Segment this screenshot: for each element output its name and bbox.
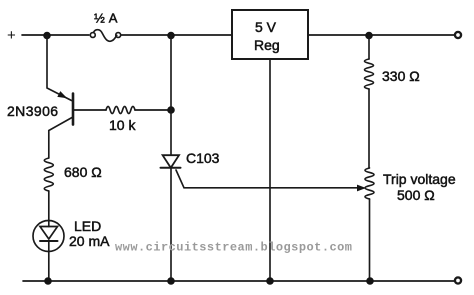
- value label 680 ohm for R2: [64, 164, 102, 180]
- fuse F1 (1/2 A): [90, 33, 95, 38]
- wire regulator to right terminal: [308, 34, 455, 36]
- wire potentiometer to bottom rail: [369, 199, 371, 281]
- svg-text:Reg: Reg: [254, 37, 280, 53]
- svg-text:C103: C103: [186, 150, 220, 166]
- label Trip voltage 500 ohm for R4: [383, 171, 456, 203]
- potentiometer R4 trip voltage 500 ohm: [365, 168, 374, 199]
- wire SCR anode column from top rail: [170, 36, 172, 111]
- svg-text:½ A: ½ A: [94, 10, 118, 25]
- svg-text:www.circuitsstream.blogspot.co: www.circuitsstream.blogspot.com: [115, 241, 352, 255]
- resistor R3 330 ohm: [365, 59, 374, 89]
- junction node A (top rail / emitter branch): [43, 32, 51, 40]
- svg-text:500 Ω: 500 Ω: [397, 187, 435, 203]
- wire bottom rail (negative/ground): [23, 280, 455, 282]
- SCR U2 C103 (thyristor): [163, 155, 179, 168]
- value label 330 ohm for R3: [382, 68, 420, 84]
- svg-text:+: +: [7, 27, 16, 44]
- wire top rail to resistor 330: [368, 36, 370, 60]
- wire top rail left: [22, 34, 89, 36]
- wire SCR cathode to bottom rail: [170, 168, 172, 281]
- svg-text:330 Ω: 330 Ω: [382, 68, 420, 84]
- terminal top right: [455, 32, 461, 38]
- value label 10 k for R1: [109, 117, 136, 133]
- junction node H (potentiometer / bottom rail): [366, 277, 374, 285]
- svg-text:20 mA: 20 mA: [69, 233, 110, 249]
- wire LED cathode to bottom rail: [48, 241, 50, 281]
- transistor Q1 2N3906 base bar: [72, 94, 75, 125]
- label C103 for SCR: [186, 150, 220, 166]
- wire base of Q1 to resistor 10k: [74, 109, 106, 111]
- resistor R2 680 ohm: [44, 158, 53, 191]
- svg-text:10 k: 10 k: [109, 117, 136, 133]
- wire collector of Q1 down to R2: [49, 118, 72, 159]
- wire emitter of Q1 to top rail: [47, 36, 72, 101]
- junction node G (regulator ground / bottom rail): [266, 277, 274, 285]
- regulator U1 5V Reg box: [232, 10, 308, 59]
- junction node D (base network / SCR anode): [167, 106, 175, 114]
- wire R1 to SCR anode column: [135, 109, 171, 111]
- wire fuse to regulator: [121, 34, 232, 36]
- value label 1/2 A for fuse F1: [94, 10, 118, 25]
- node + (positive input terminal label): [7, 27, 16, 44]
- wire SCR gate to potentiometer wiper: [176, 170, 359, 188]
- emitter arrow of Q1 (PNP): [57, 91, 67, 98]
- svg-text:Trip voltage: Trip voltage: [383, 171, 456, 187]
- junction node B (top rail / SCR anode branch): [167, 32, 175, 40]
- junction node E (LED cathode / bottom rail): [44, 277, 52, 285]
- svg-text:5 V: 5 V: [255, 19, 277, 35]
- label 2N3906 for Q1: [7, 103, 58, 119]
- junction node F (SCR cathode / bottom rail): [167, 277, 175, 285]
- watermark text: [115, 241, 352, 255]
- svg-text:2N3906: 2N3906: [7, 103, 58, 119]
- wire regulator ground pin to bottom rail: [269, 59, 271, 281]
- label LED 20 mA for D1: [69, 218, 110, 249]
- terminal bottom right: [455, 277, 461, 283]
- LED D1 (20 mA): [33, 221, 64, 252]
- wire R2 to LED anode: [48, 191, 50, 221]
- wire R3 to potentiometer: [368, 89, 370, 168]
- wiper arrow into potentiometer: [357, 185, 366, 192]
- resistor R1 10 k: [106, 107, 135, 114]
- svg-text:680 Ω: 680 Ω: [64, 164, 102, 180]
- svg-text:LED: LED: [74, 218, 101, 234]
- junction node C (top rail / 330 ohm branch): [365, 32, 373, 40]
